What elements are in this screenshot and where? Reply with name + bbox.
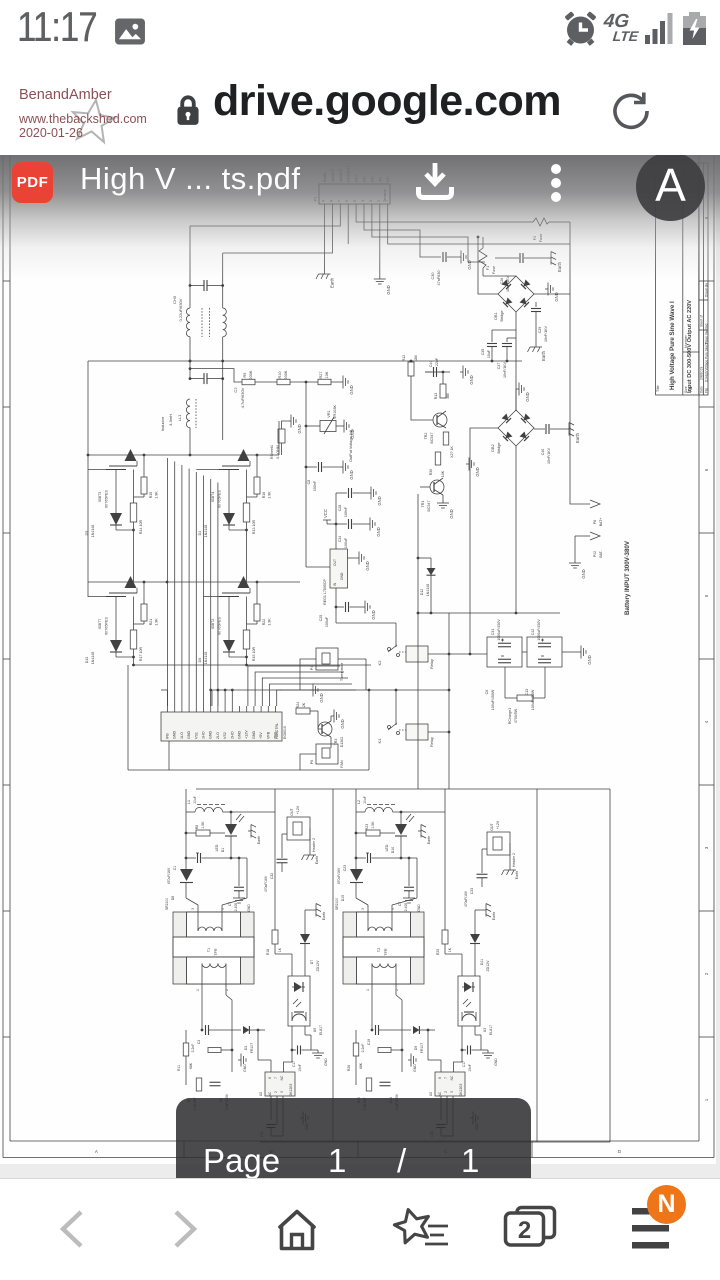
svg-text:1.9K: 1.9K [155, 491, 159, 499]
resistor R8 1.5K [186, 821, 225, 836]
bus jogs right [0, 0, 1, 1]
svg-text:1K: 1K [278, 947, 282, 952]
capacitor C25 100uF [319, 602, 362, 627]
svg-text:D5: D5 [85, 531, 89, 536]
title block text: date/file [700, 283, 709, 393]
svg-text:Bridge: Bridge [500, 311, 504, 322]
svg-text:T1: T1 [207, 948, 211, 952]
gnd C7 [403, 891, 421, 912]
wires chip pins [271, 1060, 283, 1125]
svg-text:GND: GND [173, 730, 177, 739]
wire x333 vertical [332, 789, 334, 1142]
wire C28 vertical [335, 493, 337, 524]
optocoupler U5 EL817 [288, 976, 323, 1035]
svg-text:C33: C33 [470, 888, 474, 894]
wires header right staircase [248, 666, 356, 706]
resistor R27 10K [318, 371, 331, 385]
download icon [412, 161, 458, 205]
pdf icon [12, 162, 53, 203]
svg-text:High Voltage Pure Sine Wave I: High Voltage Pure Sine Wave I [669, 301, 676, 390]
svg-text:NC: NC [280, 1075, 284, 1080]
gate bus verticals to EG board [168, 458, 218, 706]
svg-text:D: D [618, 1149, 621, 1154]
svg-text:1.9K: 1.9K [155, 618, 159, 626]
svg-text:10nF/1KV: 10nF/1KV [503, 361, 507, 378]
wire pin4 feed [392, 858, 417, 905]
vertical bus x449 [448, 613, 450, 789]
gnd TR3 [331, 710, 345, 729]
resistor R1 h [378, 1048, 391, 1053]
svg-text:GND: GND [349, 470, 354, 479]
svg-text:C13: C13 [525, 689, 529, 696]
svg-text:RSheet1: RSheet1 [270, 445, 274, 459]
wire DB1 connections [477, 236, 570, 411]
gnd above DB2 [516, 383, 530, 412]
svg-text:CH3: CH3 [172, 295, 177, 304]
svg-text:R22: R22 [262, 619, 266, 626]
transformer T1 TFR [173, 905, 254, 991]
svg-text:1N4148: 1N4148 [426, 584, 430, 597]
battery input label [624, 540, 631, 615]
svg-text:GND: GND [377, 496, 382, 505]
back [53, 1208, 89, 1250]
home [272, 1208, 322, 1252]
svg-text:R16: R16 [262, 492, 266, 499]
svg-text:GND: GND [525, 392, 530, 401]
capacitor C33 470uF/16V [464, 849, 488, 907]
svg-text:Bridge: Bridge [497, 443, 501, 454]
gnd C17 [311, 1050, 328, 1066]
capacitor CH3 [172, 280, 223, 321]
regulator REG1 L7805CP [323, 549, 348, 605]
svg-text:L2: L2 [357, 800, 361, 804]
svg-text:GND: GND [469, 375, 474, 384]
svg-text:TFR: TFR [384, 948, 388, 956]
svg-text:U5: U5 [313, 1028, 317, 1033]
svg-text:60T65PES: 60T65PES [105, 617, 109, 635]
svg-text:60T65PES: 60T65PES [105, 490, 109, 508]
svg-text:DK1203: DK1203 [459, 1084, 463, 1097]
wire P1 pin9 to earth [324, 210, 326, 271]
svg-text:D13: D13 [85, 657, 89, 664]
wire BAT+ [570, 294, 590, 504]
svg-text:D1: D1 [221, 848, 225, 853]
title block text: title [656, 301, 676, 392]
resistor R15 1.9K [134, 455, 159, 499]
svg-text:GND: GND [494, 1058, 498, 1066]
signal bars [645, 12, 677, 46]
transistor IGBT2 IGBT [211, 576, 250, 635]
alarm icon [562, 10, 599, 47]
svg-text:U3: U3 [483, 1028, 487, 1033]
resistor R16 1.9K [247, 455, 272, 499]
svg-text:FANCTRL: FANCTRL [275, 723, 279, 739]
gnd after R27 [331, 376, 354, 395]
svg-text:ZD12V: ZD12V [486, 960, 490, 972]
svg-text:10nF/1KV: 10nF/1KV [547, 447, 551, 464]
svg-text:TFR: TFR [214, 948, 218, 956]
wires feedback row [186, 1029, 233, 1085]
forward [168, 1208, 204, 1250]
svg-text:+5V: +5V [259, 732, 263, 739]
svg-text:Sheet of: Sheet of [700, 315, 704, 327]
svg-text:C34: C34 [338, 536, 342, 543]
diode D15 SR2100 [335, 869, 368, 910]
svg-text:2: 2 [395, 989, 399, 991]
svg-text:3: 3 [280, 1091, 284, 1093]
caps under chip [430, 1120, 453, 1137]
wire DB2 bottom [515, 446, 517, 613]
capacitor C13 100uF/450W [525, 656, 551, 710]
gnd under chip [300, 1112, 309, 1130]
DC bus rail top [88, 360, 522, 363]
wire IGBT3 emitter down [132, 454, 145, 582]
svg-text:GND: GND [350, 429, 355, 438]
url bar [0, 62, 720, 155]
svg-text:0.22uF/630V: 0.22uF/630V [178, 298, 183, 321]
hamburger [630, 1201, 692, 1253]
svg-text:C2: C2 [233, 387, 238, 393]
capacitor C3 2.2nF [191, 1025, 241, 1052]
svg-text:DB2: DB2 [491, 444, 495, 451]
earth C26 [548, 252, 562, 273]
svg-text:2: 2 [225, 989, 229, 991]
capacitor C17 10nF [291, 1026, 311, 1072]
capacitor C2 [190, 373, 245, 408]
svg-text:Earth: Earth [575, 432, 580, 443]
svg-text:Title: Title [656, 385, 660, 392]
module U3 EG8010 header [161, 706, 287, 741]
wire thermistor [300, 659, 366, 690]
svg-text:BAT-: BAT- [599, 550, 603, 557]
resistor RCharge 4700/5W [508, 695, 533, 724]
connector P5 header2 [287, 817, 310, 840]
left drop to converter1 [0, 0, 1, 1]
long rail y770 [128, 665, 369, 770]
svg-text:D4: D4 [198, 531, 202, 536]
battery charging [682, 12, 707, 46]
collector rail upper drop [278, 421, 280, 455]
svg-text:GND: GND [581, 569, 586, 578]
wires R12 cluster [410, 360, 445, 394]
svg-text:Earth: Earth [322, 912, 326, 920]
bridge DB2 [491, 410, 534, 453]
svg-text:IGBT2: IGBT2 [211, 619, 215, 630]
svg-text:2.2nF: 2.2nF [191, 1044, 195, 1053]
gnd C44 [460, 366, 474, 385]
svg-text:VR1: VR1 [327, 410, 331, 417]
svg-text:D:/High Voltage Pure Sine Wave: D:/High Voltage Pure Sine Wave Inverted [705, 323, 709, 382]
svg-text:GND: GND [187, 730, 191, 739]
reload icon [607, 87, 655, 135]
wire FAN [300, 737, 331, 770]
inductor L2 10uH [357, 796, 395, 812]
wire D12 vertical [417, 494, 431, 613]
title block text: size/number [684, 300, 693, 393]
svg-text:R27: R27 [319, 372, 323, 379]
rail y690 [280, 689, 450, 692]
svg-text:GND: GND [238, 730, 242, 739]
svg-text:100uF: 100uF [325, 616, 329, 627]
svg-text:GND: GND [349, 385, 354, 394]
capacitor C35 10uF [481, 330, 516, 361]
P1 net labels [323, 165, 390, 182]
bottom nav bar [0, 1178, 720, 1280]
fuse F1 [479, 237, 496, 276]
wire chip to diode node [428, 1030, 441, 1060]
bookmark star ghost [67, 93, 120, 149]
resistor R21 1.9K [134, 582, 159, 626]
svg-text:REG1 L7805CP: REG1 L7805CP [323, 579, 327, 605]
gate feeds left cells [88, 470, 106, 597]
svg-text:200K: 200K [249, 370, 253, 379]
svg-text:1.5K: 1.5K [201, 821, 205, 829]
title block frame [656, 163, 708, 395]
svg-text:FAN: FAN [340, 760, 344, 768]
svg-text:C17: C17 [292, 1061, 296, 1067]
svg-text:3: 3 [361, 908, 365, 910]
bridge DB1 [494, 276, 534, 321]
transistor TR1 BC547 [420, 478, 444, 512]
svg-text:1HO: 1HO [202, 731, 206, 739]
svg-text:TR2: TR2 [424, 433, 428, 440]
connector P1 terminal block [313, 184, 391, 210]
gnd mid [238, 1054, 247, 1073]
wire header bottom to rail [168, 741, 170, 770]
svg-text:1.9K: 1.9K [268, 491, 272, 499]
wire mains left vertical [189, 226, 192, 308]
relay K1 [377, 723, 434, 747]
svg-text:3: 3 [450, 1091, 454, 1093]
svg-text:Inductor: Inductor [160, 416, 165, 431]
header labels [290, 805, 316, 852]
capacitor C17 10nF [461, 1026, 481, 1072]
wire P1 pin2 to gnd [379, 210, 381, 276]
svg-text:Relay: Relay [430, 659, 434, 669]
chip U4 DK1203 [429, 1072, 465, 1096]
diode D9 FR107 [413, 1026, 435, 1053]
capacitor C19 2.2nF [361, 1025, 411, 1052]
resistor R1 h [208, 1048, 221, 1053]
svg-text:Date: Date [700, 386, 704, 393]
inductor L1 10uH [187, 796, 225, 812]
svg-text:R24: R24 [296, 702, 300, 709]
resistor R24 2K [296, 702, 310, 714]
resistor R12 2M [402, 355, 418, 376]
svg-text:VS1: VS1 [194, 732, 198, 739]
svg-text:0.1OHM: 0.1OHM [276, 445, 280, 458]
svg-text:2: 2 [518, 1217, 531, 1244]
svg-text:10K: 10K [441, 470, 445, 477]
svg-text:C31: C31 [491, 629, 495, 636]
diode D5 1N4148 [85, 470, 134, 538]
capacitor C29 10nF/1KV [531, 302, 548, 344]
gnd C25 [362, 601, 376, 620]
supply vertical x306 [305, 425, 330, 567]
zone ticks left edge [3, 281, 10, 1037]
4G LTE [601, 13, 640, 45]
svg-text:GND: GND [475, 467, 480, 476]
svg-text:2: 2 [274, 1091, 278, 1093]
svg-text:1LO: 1LO [180, 732, 184, 739]
svg-text:RCharge1: RCharge1 [508, 708, 512, 724]
wire right bus x570 [569, 222, 571, 294]
svg-text:2LO: 2LO [216, 732, 220, 739]
svg-text:1N4148: 1N4148 [91, 652, 95, 665]
wire P1 pin3 right rail C [372, 210, 485, 262]
gnd regulator [356, 552, 370, 571]
gnd caps [562, 646, 592, 665]
capacitor C6 100uF/450W [485, 656, 511, 710]
resistor R18 1K [266, 789, 292, 976]
transistor TR3 D1302 [310, 711, 344, 747]
long rail y789 [196, 789, 610, 1142]
svg-text:K1: K1 [377, 738, 382, 744]
svg-text:IGBT4: IGBT4 [211, 492, 215, 503]
zone ticks bottom edge [95, 1141, 621, 1158]
emitter rail bottom [132, 664, 371, 667]
capacitor C37 10nF/1KV [497, 338, 516, 378]
svg-text:1N4148: 1N4148 [91, 525, 95, 538]
wire P1 pin4 right rail B [364, 210, 441, 257]
svg-text:8M: 8M [446, 394, 450, 399]
svg-text:4.7uF/630V: 4.7uF/630V [240, 387, 245, 408]
capacitor C7 22-400 [398, 857, 414, 914]
svg-text:D8: D8 [171, 896, 175, 901]
svg-text:R14 10R: R14 10R [139, 520, 143, 535]
svg-text:Battery INPUT 300V-380V: Battery INPUT 300V-380V [624, 540, 631, 615]
svg-text:3: 3 [191, 908, 195, 910]
svg-text:GND: GND [417, 904, 421, 912]
svg-text:R15: R15 [149, 492, 153, 499]
wires K1 [396, 690, 450, 733]
left bus vertical [87, 361, 89, 597]
svg-text:Earth: Earth [492, 912, 496, 920]
svg-text:+12V: +12V [496, 820, 500, 829]
svg-text:4: 4 [221, 908, 225, 910]
svg-text:FR107: FR107 [420, 1043, 424, 1053]
resistor R13 8M [434, 384, 450, 399]
capacitor C31 1000uF/450V [487, 619, 522, 667]
svg-text:FR107: FR107 [250, 1043, 254, 1053]
svg-text:D1302: D1302 [340, 737, 344, 748]
potentiometer VR1 VR103K [306, 382, 353, 462]
svg-text:470uF/16V: 470uF/16V [264, 875, 268, 892]
wires RCharge [505, 667, 545, 698]
transistor IGBT4 IGBT [211, 449, 250, 508]
relay feed wire [336, 607, 396, 647]
resistor R17 10R [130, 597, 143, 662]
svg-text:D6: D6 [198, 658, 202, 663]
earth C40 [566, 423, 580, 444]
svg-text:BC547: BC547 [430, 433, 434, 444]
svg-text:C3: C3 [197, 1040, 201, 1044]
earth above zener [475, 904, 496, 921]
diode D12 1N4148 [420, 568, 436, 596]
capacitor C23 470uF/16V [337, 853, 417, 884]
svg-text:C35: C35 [481, 349, 485, 356]
gnd C7 [233, 891, 251, 912]
svg-text:1.9K: 1.9K [268, 618, 272, 626]
common mode choke L-CM [186, 308, 226, 337]
svg-text:D7: D7 [310, 960, 314, 965]
svg-text:GND: GND [297, 424, 302, 433]
diode D4 1N4148 [198, 470, 247, 538]
svg-text:200K: 200K [284, 370, 288, 379]
page pill [176, 1098, 531, 1178]
gnd TR1 [437, 495, 454, 519]
svg-text:Header 2: Header 2 [312, 838, 316, 852]
svg-text:C42: C42 [531, 629, 535, 636]
svg-text:1: 1 [196, 989, 200, 991]
svg-text:R12: R12 [402, 355, 406, 362]
capacitor C1 470uF/16V [167, 853, 247, 884]
svg-text:C1: C1 [173, 866, 177, 871]
svg-text:10uF: 10uF [193, 796, 197, 804]
wire inductor leads [185, 789, 275, 869]
svg-text:VCC: VCC [323, 509, 328, 518]
capacitor C6 22uF/400V [210, 1082, 230, 1110]
wire opto to chip [454, 1050, 463, 1072]
svg-text:1N4148: 1N4148 [204, 652, 208, 665]
wire IGBT2 emitter down [245, 581, 258, 665]
vertical bus x418 [417, 613, 419, 789]
svg-text:2M: 2M [414, 356, 418, 361]
capacitor C28 100nF [336, 488, 368, 517]
svg-text:R26: R26 [347, 1065, 351, 1071]
diode D6 1N4148 [198, 597, 247, 665]
connector P6 FAN [310, 744, 344, 768]
svg-text:Earth: Earth [315, 856, 319, 864]
svg-text:1K: 1K [448, 947, 452, 952]
svg-text:File: File [705, 388, 709, 393]
svg-text:T2: T2 [377, 948, 381, 952]
wire opto to chip [284, 1050, 293, 1072]
gate feeds right cells [196, 470, 219, 597]
wire inductor leads [355, 789, 445, 869]
page inner border [10, 155, 699, 1141]
svg-text:10K: 10K [325, 371, 329, 378]
svg-text:VR103K: VR103K [333, 404, 337, 419]
earth symbol below P1 [316, 271, 335, 288]
lock icon [176, 95, 200, 126]
svg-text:1.5K: 1.5K [371, 821, 375, 829]
svg-text:68K: 68K [189, 1062, 193, 1069]
wire LL1 down [189, 428, 191, 455]
svg-text:68K: 68K [359, 1062, 363, 1069]
svg-text:8: 8 [268, 1077, 272, 1079]
earth C29 [528, 344, 547, 361]
svg-text:470uF/16V: 470uF/16V [337, 867, 341, 884]
LED D1 [215, 812, 244, 859]
svg-text:100uF: 100uF [344, 537, 348, 548]
svg-text:R17 10R: R17 10R [139, 647, 143, 662]
capacitor C32 470uF/16V [264, 834, 288, 892]
svg-text:NC: NC [450, 1075, 454, 1080]
zener D7 ZD12V [300, 910, 320, 976]
svg-text:470uF/16V: 470uF/16V [464, 890, 468, 907]
wire K2 output rail [428, 653, 487, 656]
wire P1 pin5 right rail A [356, 210, 529, 222]
resistor R25 1K [436, 789, 462, 976]
svg-text:2: 2 [444, 1091, 448, 1093]
svg-text:D10: D10 [391, 847, 395, 853]
wire rail690 to fan loop [368, 690, 370, 770]
pdf toolbar overlay gradient [0, 155, 720, 280]
svg-text:R23: R23 [365, 824, 369, 830]
svg-text:SR2100: SR2100 [335, 898, 339, 910]
collector rail mid [88, 581, 300, 584]
